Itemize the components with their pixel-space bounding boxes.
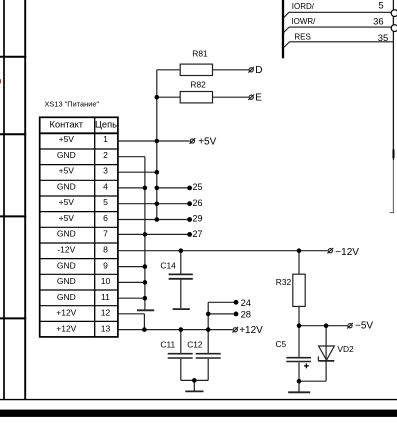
svg-text:24: 24 xyxy=(241,297,251,308)
svg-text:9: 9 xyxy=(103,260,108,270)
svg-text:IOWR/: IOWR/ xyxy=(291,17,316,26)
svg-text:D: D xyxy=(255,65,262,76)
svg-text:GND: GND xyxy=(57,181,76,191)
svg-text:3: 3 xyxy=(103,166,108,176)
svg-text:+5V: +5V xyxy=(59,213,75,223)
svg-text:+5V: +5V xyxy=(59,197,75,207)
svg-text:6: 6 xyxy=(103,213,108,223)
svg-text:GND: GND xyxy=(57,276,76,286)
svg-text:Цепь: Цепь xyxy=(95,120,117,130)
svg-text:RES: RES xyxy=(294,33,310,42)
svg-text:C5: C5 xyxy=(276,339,287,349)
svg-text:+5V: +5V xyxy=(59,134,75,144)
svg-text:36: 36 xyxy=(373,15,383,26)
svg-text:5: 5 xyxy=(378,0,383,11)
svg-text:Контакт: Контакт xyxy=(50,120,84,130)
svg-text:GND: GND xyxy=(57,292,76,302)
svg-text:R82: R82 xyxy=(190,79,206,89)
svg-text:12: 12 xyxy=(101,308,111,318)
svg-text:29: 29 xyxy=(193,214,203,224)
svg-text:C14: C14 xyxy=(160,260,176,270)
svg-text:7: 7 xyxy=(103,229,108,239)
svg-text:1: 1 xyxy=(103,134,108,144)
svg-text:+5V: +5V xyxy=(198,136,216,147)
svg-text:27: 27 xyxy=(193,229,203,239)
svg-text:35: 35 xyxy=(378,32,388,43)
svg-text:−5V: −5V xyxy=(355,321,373,332)
svg-text:5: 5 xyxy=(103,197,108,207)
svg-text:+12V: +12V xyxy=(56,308,76,318)
svg-text:+12V: +12V xyxy=(239,325,263,336)
svg-text:8: 8 xyxy=(103,245,108,255)
svg-text:+5V: +5V xyxy=(59,166,75,176)
svg-text:VD2: VD2 xyxy=(337,344,354,354)
svg-text:−12V: −12V xyxy=(335,247,359,258)
svg-text:4: 4 xyxy=(103,181,108,191)
svg-text:-12V: -12V xyxy=(57,245,75,255)
svg-text:C11: C11 xyxy=(160,340,175,350)
svg-text:GND: GND xyxy=(57,150,76,160)
svg-text:E: E xyxy=(255,92,262,103)
svg-text:R81: R81 xyxy=(192,48,208,58)
svg-text:28: 28 xyxy=(241,308,251,319)
svg-text:10: 10 xyxy=(101,276,111,286)
svg-text:11: 11 xyxy=(101,292,110,302)
svg-text:GND: GND xyxy=(57,229,76,239)
svg-text:+12V: +12V xyxy=(56,324,76,334)
svg-text:C12: C12 xyxy=(187,340,203,350)
svg-text:IORD/: IORD/ xyxy=(292,2,315,11)
svg-text:XS13 "Питание": XS13 "Питание" xyxy=(45,99,100,108)
svg-text:R32: R32 xyxy=(276,277,292,287)
svg-text:25: 25 xyxy=(193,182,203,192)
svg-text:26: 26 xyxy=(193,198,203,208)
svg-text:2: 2 xyxy=(103,150,108,160)
svg-text:GND: GND xyxy=(57,260,76,270)
svg-text:13: 13 xyxy=(101,324,111,334)
